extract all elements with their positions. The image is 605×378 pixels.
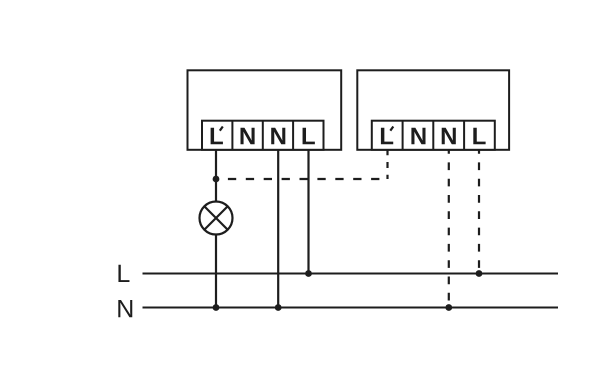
- device box U2 (right device): [357, 70, 509, 150]
- device box U1 (left device): [188, 70, 342, 150]
- L bus line: [143, 273, 559, 275]
- junction node at U1.L' wire: [213, 176, 220, 183]
- wire U1.L (pin 4) to L bus: [307, 150, 309, 274]
- junction node U2.L on L bus: [476, 270, 483, 277]
- pin label L' (U1 pin 1): [211, 127, 223, 145]
- pin label L (U2 pin 4): [473, 128, 485, 145]
- terminal block of U2: [372, 121, 495, 150]
- dashed wire junction to U2.L': [228, 150, 388, 179]
- net label N: [118, 300, 132, 317]
- wire lamp to N bus: [215, 235, 217, 308]
- junction node U1.N on N bus: [275, 304, 282, 311]
- pin label N (U2 pin 2): [411, 128, 425, 145]
- lamp E1 (circle with cross): [200, 202, 233, 235]
- N bus line: [143, 307, 559, 309]
- net label L: [118, 265, 129, 282]
- dashed wire U2.L (pin 4) to L bus: [478, 150, 480, 274]
- dashed wire U2.N (pin 3) to N bus: [448, 150, 450, 308]
- junction node U1.L on L bus: [305, 270, 312, 277]
- pin label N (U1 pin 2): [241, 128, 255, 145]
- terminal block of U1: [202, 121, 324, 150]
- pin label N (U1 pin 3): [271, 128, 285, 145]
- pin label N (U2 pin 3): [442, 128, 456, 145]
- junction node U2.N on N bus: [445, 304, 452, 311]
- pin label L (U1 pin 4): [303, 128, 315, 145]
- wire U1.L' down to junction and lamp: [215, 150, 217, 202]
- junction node lamp on N bus: [213, 304, 220, 311]
- wire U1.N (pin 3) to N bus: [277, 150, 279, 308]
- pin label L' (U2 pin 1): [381, 127, 393, 145]
